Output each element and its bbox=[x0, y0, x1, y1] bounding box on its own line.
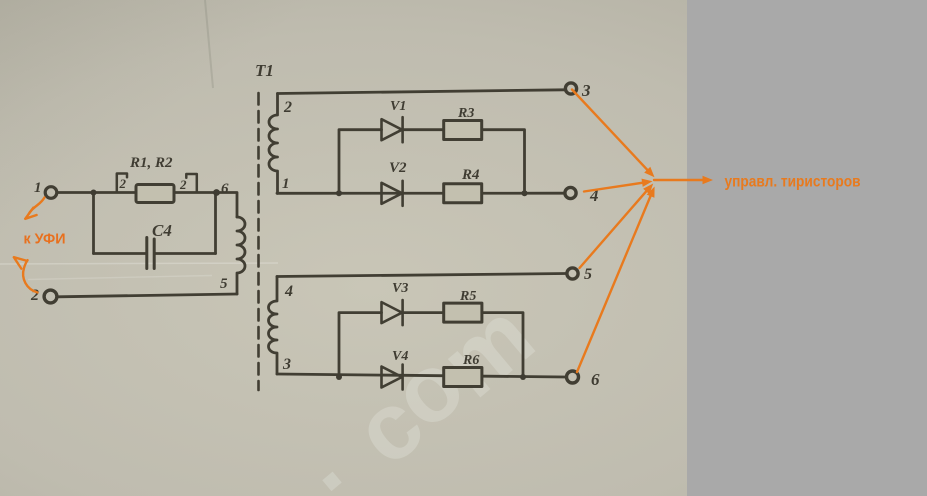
terminal 6 bbox=[567, 371, 579, 383]
wire: V3 to R5 bbox=[403, 311, 444, 314]
orange annotations bbox=[14, 90, 704, 373]
T1 core dashed line bbox=[257, 93, 260, 390]
junction top-right (top section) bbox=[522, 190, 528, 196]
terminal 1 bbox=[45, 187, 57, 199]
wire: coilB top to terminal 5 bbox=[277, 274, 566, 277]
svg-text:5: 5 bbox=[584, 266, 592, 283]
arrowhead main bbox=[703, 176, 714, 184]
wire: R3 to right vertical down bbox=[481, 130, 524, 194]
arrowhead line6 bbox=[647, 187, 655, 198]
svg-text:6: 6 bbox=[221, 181, 229, 197]
svg-text:R1, R2: R1, R2 bbox=[129, 155, 173, 171]
annotation line from terminal 3 bbox=[572, 90, 652, 175]
capacitor C4 plates bbox=[147, 238, 154, 269]
gray side panel bbox=[687, 0, 927, 496]
annotation line from terminal 6 bbox=[577, 193, 652, 372]
wire: R5 to right vertical down bbox=[482, 313, 523, 377]
wire: node6 to primary coil top bbox=[217, 193, 238, 218]
primary winding of T1 (right-bulging arcs) bbox=[237, 217, 245, 294]
svg-text:V4: V4 bbox=[392, 349, 408, 364]
svg-text:2: 2 bbox=[179, 177, 187, 192]
svg-text:V1: V1 bbox=[390, 99, 406, 114]
resistor R4 bbox=[444, 184, 482, 203]
wire: coilB bottom to terminal 6 bbox=[277, 374, 566, 377]
svg-text:T1: T1 bbox=[255, 61, 274, 80]
svg-text:1: 1 bbox=[282, 176, 290, 192]
svg-text:3: 3 bbox=[282, 356, 291, 373]
wire: coilA bottom to terminal 4 bbox=[277, 192, 564, 195]
junction bottom-left (bottom section) bbox=[336, 374, 342, 380]
diode V2 bbox=[382, 181, 403, 206]
annotation arrow к УФИ upper shaft bbox=[29, 198, 45, 215]
svg-text:V3: V3 bbox=[392, 281, 408, 296]
wire: terminal1 to node6 bbox=[58, 191, 217, 194]
junction top-left (top section) bbox=[336, 190, 342, 196]
diode V1 bbox=[382, 117, 403, 142]
wire: capacitor horizontals bbox=[94, 252, 216, 255]
resistor R1,R2 body bbox=[136, 185, 174, 203]
wire: branch left vertical (top section) bbox=[339, 130, 382, 194]
paper scratch bbox=[0, 263, 278, 264]
wire: branch left vertical (bottom section) bbox=[339, 313, 382, 378]
annotation line from terminal 5 bbox=[580, 188, 650, 268]
svg-text:1: 1 bbox=[34, 180, 42, 196]
diode V3 bbox=[382, 300, 403, 325]
svg-text:R5: R5 bbox=[459, 289, 476, 304]
svg-text:управл. тиристоров: управл. тиристоров bbox=[725, 174, 861, 191]
svg-text:5: 5 bbox=[220, 276, 228, 292]
svg-text:C4: C4 bbox=[152, 221, 172, 240]
junction node 6 bbox=[213, 189, 220, 196]
svg-text:R4: R4 bbox=[461, 167, 480, 183]
terminal 4 bbox=[565, 187, 576, 198]
arrowhead line4 bbox=[642, 179, 653, 187]
svg-text:2: 2 bbox=[283, 99, 292, 116]
terminal 5 bbox=[567, 268, 578, 279]
resistor R3 bbox=[444, 121, 482, 140]
arrowhead line5 bbox=[643, 184, 653, 195]
terminal 3 bbox=[565, 83, 576, 94]
secondary winding B of T1 bbox=[269, 277, 278, 375]
svg-text:R6: R6 bbox=[462, 353, 479, 368]
resistor R5 bbox=[444, 303, 482, 322]
wire: RC branch left vertical bbox=[92, 193, 95, 254]
svg-text:6: 6 bbox=[591, 370, 600, 389]
svg-text:2: 2 bbox=[119, 176, 127, 191]
paper crease top bbox=[205, 0, 213, 88]
schematic labels bbox=[30, 61, 600, 389]
wire: RC branch right vertical bbox=[214, 193, 217, 254]
wire: V1 to R3 bbox=[403, 128, 444, 131]
wire: coilA top to terminal 3 bbox=[278, 90, 565, 94]
svg-text:V2: V2 bbox=[389, 160, 407, 176]
tap mark right (pin 2) bbox=[186, 174, 197, 192]
terminal 2 bbox=[44, 290, 57, 303]
resistor R6 bbox=[444, 368, 482, 387]
annotation arrow к УФИ lower shaft bbox=[23, 260, 37, 292]
junction bottom-right (bottom section) bbox=[520, 374, 526, 380]
wire: terminal2 to primary coil bottom bbox=[58, 294, 238, 297]
annotation arrow к УФИ upper head bbox=[25, 208, 36, 219]
svg-text:R3: R3 bbox=[457, 106, 474, 121]
secondary winding A of T1 (left-bulging arcs) bbox=[269, 94, 278, 194]
svg-text:4: 4 bbox=[284, 283, 293, 300]
annotation line from terminal 4 bbox=[584, 182, 647, 191]
watermark .com bbox=[272, 282, 554, 496]
diode V4 bbox=[382, 365, 403, 390]
svg-text:3: 3 bbox=[581, 81, 591, 100]
annotation arrow к УФИ lower head bbox=[14, 257, 26, 268]
arrowhead line3 bbox=[644, 167, 654, 178]
tap mark left (pin 2) bbox=[117, 174, 127, 192]
junction at RC left bbox=[91, 190, 97, 196]
svg-text:к УФИ: к УФИ bbox=[24, 232, 66, 248]
annotation arrow to text bbox=[654, 179, 704, 181]
